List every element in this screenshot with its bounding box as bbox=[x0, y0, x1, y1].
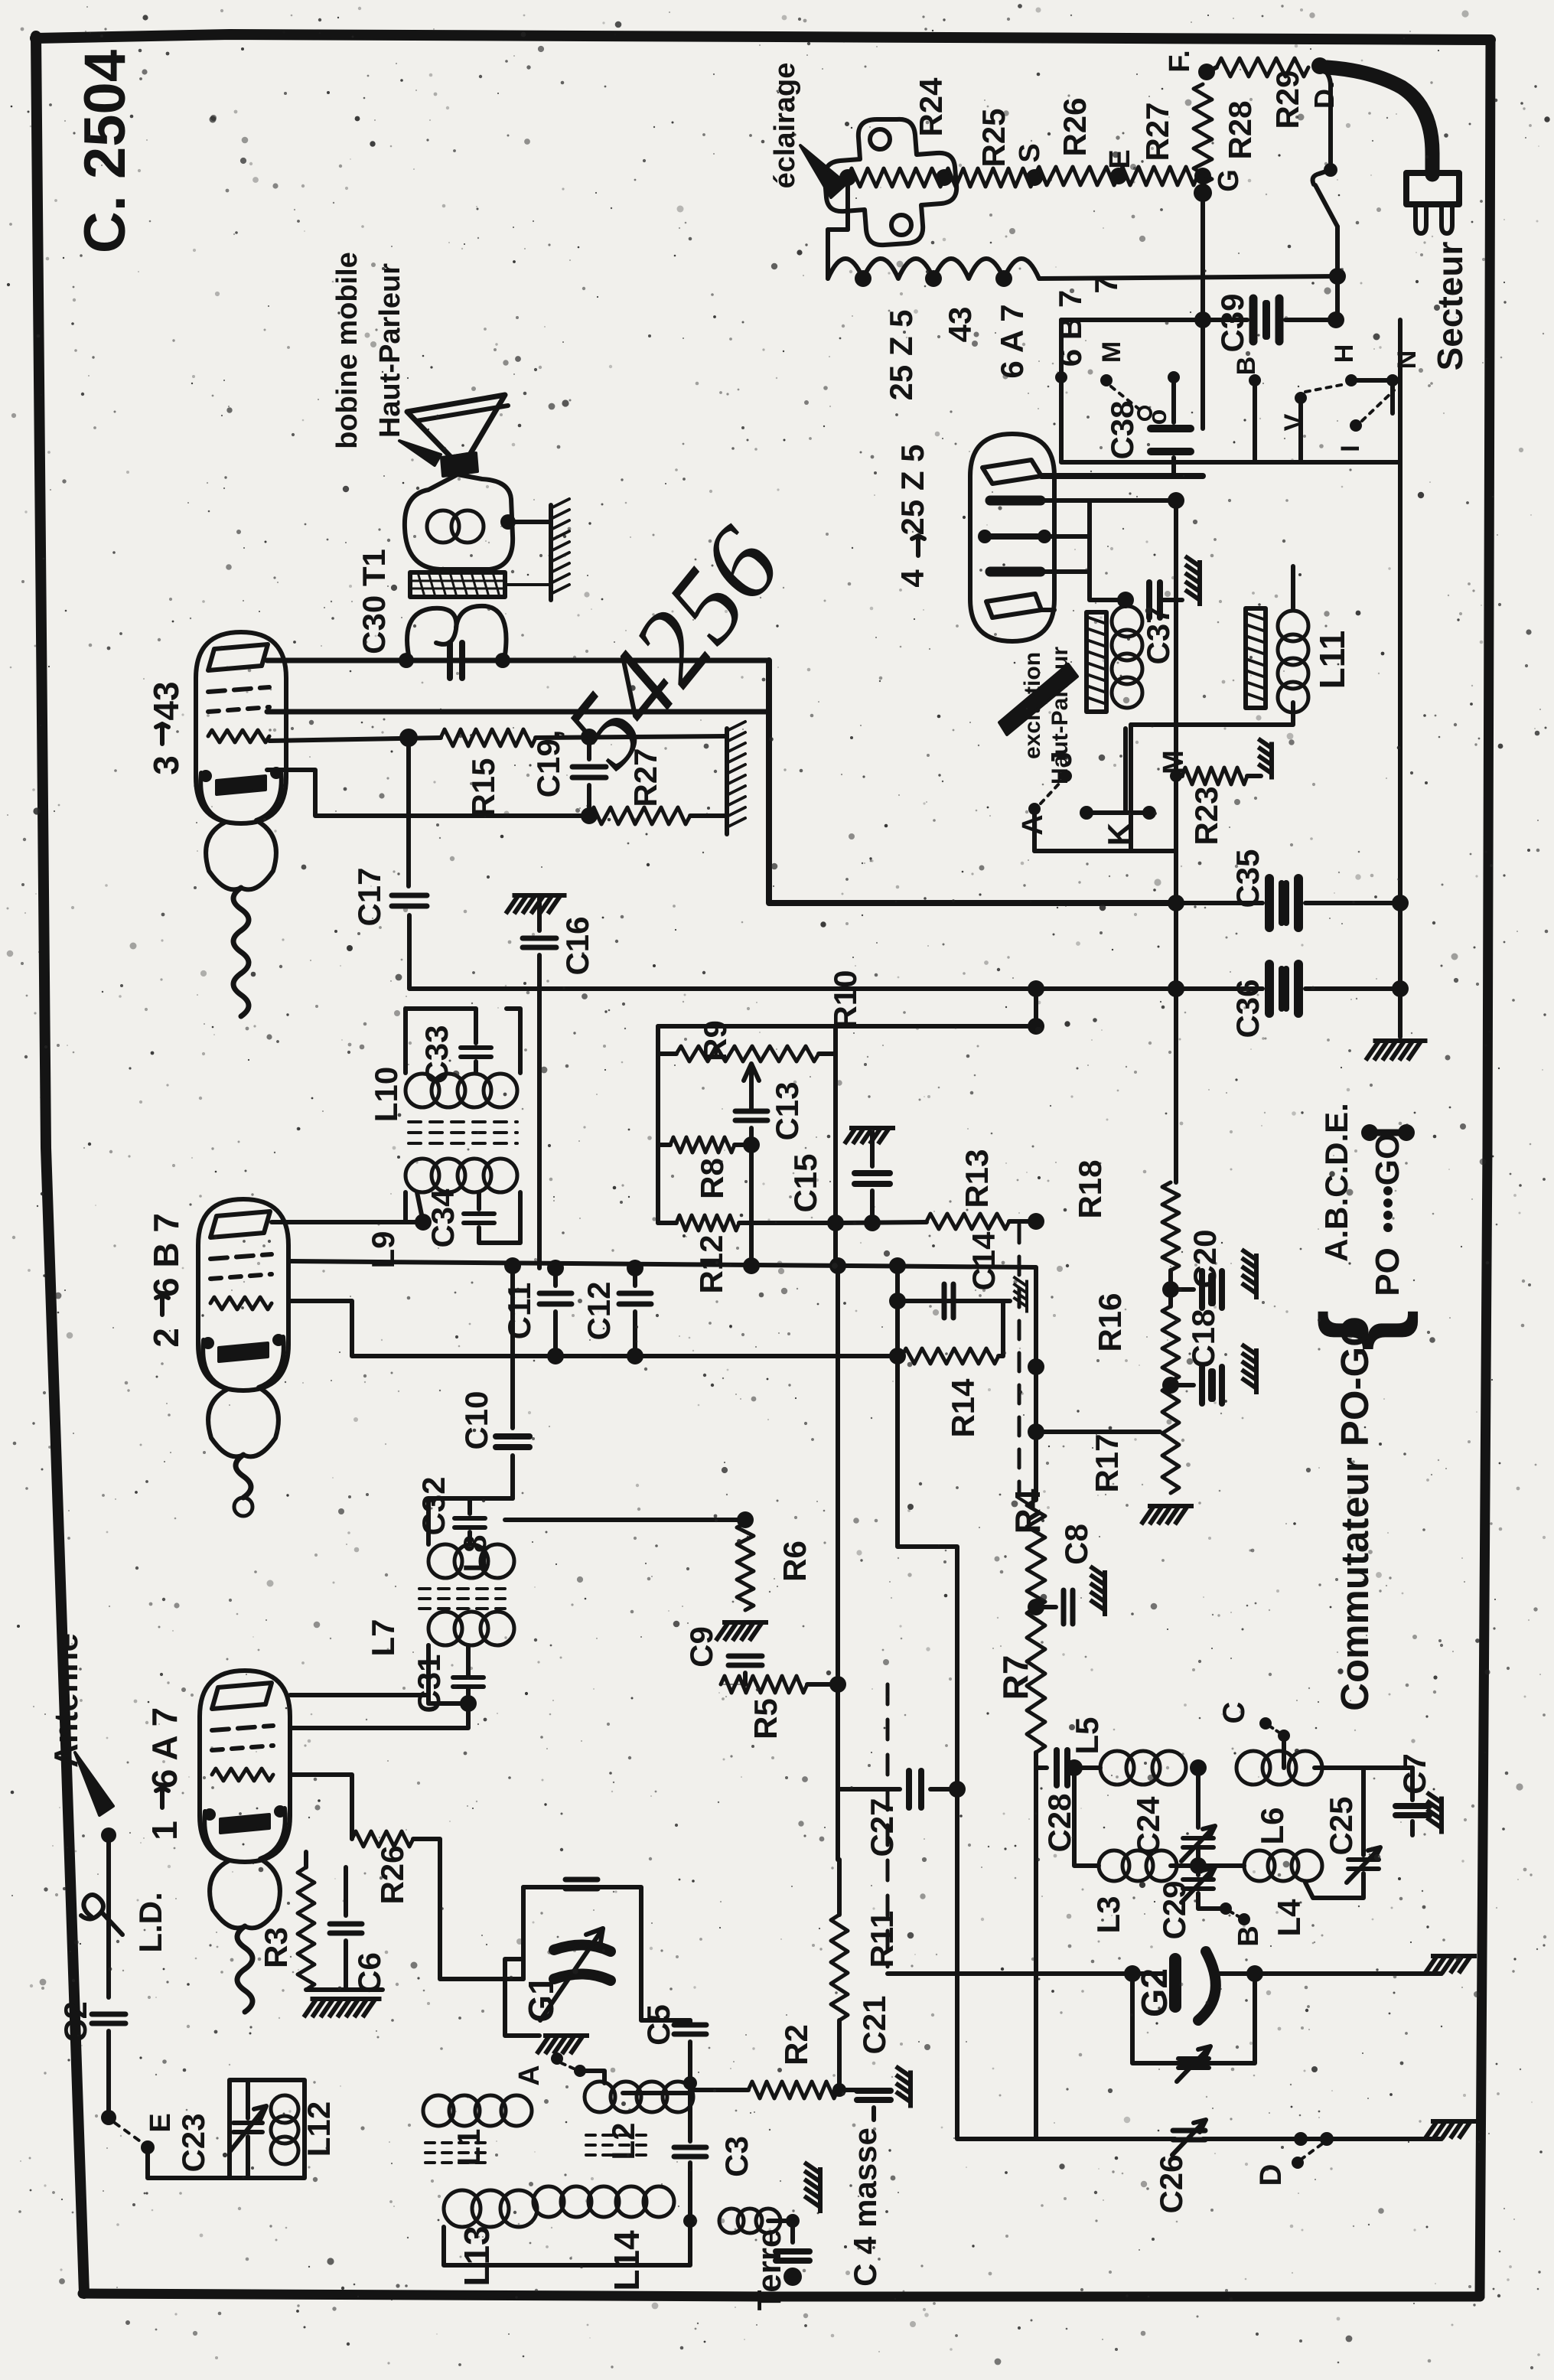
svg-text:R8: R8 bbox=[694, 1158, 730, 1199]
svg-text:25 Z 5: 25 Z 5 bbox=[894, 444, 930, 535]
svg-text:L7: L7 bbox=[365, 1619, 401, 1656]
svg-text:A.B.C.D.E.: A.B.C.D.E. bbox=[1318, 1103, 1354, 1262]
svg-text:R6: R6 bbox=[777, 1540, 813, 1582]
svg-text:C9: C9 bbox=[683, 1626, 719, 1668]
svg-text:C30 T1: C30 T1 bbox=[356, 549, 392, 654]
svg-text:I: I bbox=[1336, 445, 1365, 452]
svg-text:C12: C12 bbox=[581, 1281, 617, 1340]
svg-text:R14: R14 bbox=[945, 1378, 981, 1438]
svg-text:6 A 7: 6 A 7 bbox=[994, 304, 1030, 378]
svg-text:R5: R5 bbox=[748, 1698, 784, 1739]
svg-text:L12: L12 bbox=[301, 2101, 337, 2157]
svg-text:C19,: C19, bbox=[530, 730, 566, 798]
svg-text:R15: R15 bbox=[465, 758, 501, 817]
svg-text:A: A bbox=[513, 2065, 546, 2085]
svg-text:7: 7 bbox=[1088, 275, 1124, 293]
svg-text:GO: GO bbox=[1369, 1133, 1406, 1185]
svg-text:M: M bbox=[1097, 341, 1126, 363]
svg-text:C2: C2 bbox=[57, 2001, 93, 2043]
svg-text:C28: C28 bbox=[1041, 1793, 1077, 1852]
svg-text:C: C bbox=[1217, 1702, 1251, 1724]
svg-text:bobine mobile: bobine mobile bbox=[331, 252, 363, 449]
svg-text:G: G bbox=[1213, 169, 1245, 192]
svg-text:C38: C38 bbox=[1104, 400, 1140, 459]
svg-text:2: 2 bbox=[146, 1328, 186, 1348]
svg-text:R17: R17 bbox=[1089, 1433, 1125, 1492]
svg-text:C25: C25 bbox=[1323, 1796, 1359, 1855]
svg-text:B: B bbox=[1233, 1925, 1265, 1946]
svg-text:H: H bbox=[1330, 344, 1359, 364]
svg-text:C21: C21 bbox=[856, 1995, 892, 2054]
svg-text:PO: PO bbox=[1369, 1247, 1406, 1296]
svg-text:D: D bbox=[1254, 2164, 1288, 2186]
svg-text:C37: C37 bbox=[1140, 605, 1176, 664]
svg-text:6 A 7: 6 A 7 bbox=[145, 1707, 184, 1789]
svg-text:K: K bbox=[1101, 823, 1137, 846]
svg-text:R3: R3 bbox=[258, 1927, 294, 1968]
svg-text:R23: R23 bbox=[1188, 786, 1224, 845]
svg-text:R26: R26 bbox=[374, 1845, 410, 1904]
svg-text:Haut-Parleur: Haut-Parleur bbox=[374, 263, 406, 438]
svg-text:C13: C13 bbox=[769, 1081, 805, 1140]
svg-text:C5: C5 bbox=[640, 2004, 676, 2046]
svg-text:B: B bbox=[1232, 357, 1261, 376]
svg-text:6 B 7: 6 B 7 bbox=[146, 1213, 186, 1297]
svg-text:R24: R24 bbox=[913, 77, 949, 137]
svg-text:6 B 7: 6 B 7 bbox=[1052, 290, 1088, 367]
svg-text:F.: F. bbox=[1164, 50, 1196, 73]
svg-text:R25: R25 bbox=[976, 108, 1012, 167]
svg-text:N: N bbox=[1393, 350, 1422, 370]
svg-text:L14: L14 bbox=[607, 2230, 647, 2291]
svg-text:R10: R10 bbox=[827, 970, 863, 1029]
svg-text:Commutateur PO-GO: Commutateur PO-GO bbox=[1333, 1316, 1376, 1711]
svg-text:R18: R18 bbox=[1072, 1159, 1108, 1218]
svg-text:R12: R12 bbox=[693, 1234, 729, 1293]
svg-text:o: o bbox=[1143, 409, 1172, 425]
svg-text:1: 1 bbox=[145, 1821, 184, 1840]
svg-text:C23: C23 bbox=[175, 2113, 211, 2172]
svg-text:L3: L3 bbox=[1090, 1896, 1126, 1933]
svg-text:25 Z 5: 25 Z 5 bbox=[883, 309, 919, 400]
svg-text:Terre: Terre bbox=[751, 2229, 788, 2311]
svg-text:C17: C17 bbox=[351, 867, 387, 926]
svg-text:C 4 masse: C 4 masse bbox=[847, 2127, 883, 2287]
svg-text:R11: R11 bbox=[864, 1911, 900, 1968]
svg-text:R13: R13 bbox=[959, 1149, 995, 1208]
svg-text:C11: C11 bbox=[501, 1283, 537, 1340]
svg-text:R2: R2 bbox=[778, 2024, 814, 2065]
svg-text:L5: L5 bbox=[1069, 1717, 1105, 1754]
svg-text:C39: C39 bbox=[1214, 293, 1250, 352]
svg-text:4: 4 bbox=[894, 569, 930, 588]
svg-text:V: V bbox=[1279, 413, 1308, 431]
svg-text:éclairage: éclairage bbox=[769, 63, 801, 189]
svg-text:R26: R26 bbox=[1057, 97, 1093, 156]
svg-text:43: 43 bbox=[942, 307, 978, 343]
svg-text:3: 3 bbox=[146, 755, 186, 775]
svg-text:Antenne: Antenne bbox=[47, 1633, 85, 1768]
svg-text:L11: L11 bbox=[1312, 631, 1352, 690]
svg-text:43: 43 bbox=[146, 681, 186, 720]
svg-text:L1: L1 bbox=[451, 2128, 487, 2166]
svg-text:L6: L6 bbox=[1254, 1807, 1290, 1844]
svg-text:C10: C10 bbox=[458, 1391, 494, 1449]
svg-text:C27: C27 bbox=[864, 1798, 900, 1857]
svg-text:C15: C15 bbox=[787, 1153, 823, 1212]
svg-text:C16: C16 bbox=[559, 916, 595, 975]
svg-text:J: J bbox=[1046, 751, 1078, 767]
svg-text:C26: C26 bbox=[1153, 2154, 1189, 2213]
svg-text:C14: C14 bbox=[966, 1231, 1002, 1291]
svg-text:S: S bbox=[1014, 143, 1046, 162]
svg-text:L13: L13 bbox=[457, 2225, 497, 2286]
svg-text:L4: L4 bbox=[1271, 1899, 1307, 1937]
svg-text:R16: R16 bbox=[1092, 1293, 1128, 1351]
svg-text:E: E bbox=[145, 2113, 177, 2132]
svg-text:C3: C3 bbox=[718, 2136, 754, 2177]
svg-text:C35: C35 bbox=[1230, 849, 1266, 908]
svg-text:C24: C24 bbox=[1130, 1796, 1166, 1856]
svg-text:R28: R28 bbox=[1222, 100, 1258, 159]
svg-text:C6: C6 bbox=[351, 1952, 387, 1994]
svg-text:C. 2504: C. 2504 bbox=[73, 50, 138, 253]
svg-text:R27: R27 bbox=[1139, 102, 1175, 161]
svg-text:C8: C8 bbox=[1058, 1524, 1094, 1565]
svg-text:C32: C32 bbox=[415, 1476, 451, 1535]
svg-text:D.: D. bbox=[1308, 81, 1340, 109]
